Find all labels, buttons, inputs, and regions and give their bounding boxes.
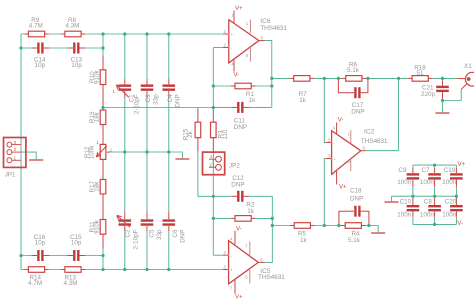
svg-text:1k: 1k [249, 97, 257, 104]
svg-text:THS4631: THS4631 [258, 274, 285, 281]
svg-text:C3: C3 [145, 94, 152, 103]
svg-text:100n: 100n [397, 211, 412, 218]
svg-text:1k: 1k [247, 208, 255, 215]
svg-text:IC2: IC2 [364, 128, 375, 135]
svg-text:2k: 2k [187, 130, 194, 138]
svg-text:C6: C6 [172, 229, 179, 238]
svg-text:100k: 100k [88, 145, 95, 160]
svg-text:V-: V- [234, 73, 240, 79]
svg-text:+: + [333, 158, 336, 163]
svg-text:V+: V+ [339, 185, 347, 191]
svg-text:V+: V+ [235, 6, 243, 12]
svg-text:JP2: JP2 [229, 162, 240, 169]
svg-text:4.3M: 4.3M [65, 23, 79, 30]
svg-text:+: + [231, 33, 234, 38]
svg-text:4.7M: 4.7M [29, 23, 43, 30]
svg-text:2-10pF: 2-10pF [134, 94, 141, 114]
svg-text:THS4631: THS4631 [260, 25, 287, 32]
svg-text:18k: 18k [94, 111, 101, 122]
svg-text:100n: 100n [397, 179, 412, 186]
svg-text:V+: V+ [235, 294, 243, 300]
svg-text:C20: C20 [445, 199, 457, 206]
svg-text:10p: 10p [35, 62, 46, 69]
svg-text:DNP: DNP [231, 182, 244, 189]
svg-text:100n: 100n [420, 211, 435, 218]
svg-text:4.3M: 4.3M [64, 280, 78, 287]
svg-text:DNP: DNP [180, 230, 187, 243]
svg-text:C5: C5 [149, 229, 156, 238]
svg-text:C7: C7 [421, 167, 430, 174]
svg-text:10p: 10p [35, 240, 46, 247]
svg-text:51: 51 [417, 70, 425, 77]
svg-text:5.1k: 5.1k [348, 237, 361, 244]
svg-text:X1: X1 [464, 63, 472, 70]
svg-text:33p: 33p [156, 229, 163, 240]
svg-text:10p: 10p [71, 62, 82, 69]
svg-text:18k: 18k [94, 181, 101, 192]
svg-text:IC6: IC6 [260, 18, 271, 25]
svg-text:C8: C8 [424, 199, 433, 206]
svg-text:1k: 1k [300, 237, 308, 244]
svg-text:V-: V- [457, 221, 463, 227]
svg-text:DNP: DNP [351, 108, 364, 115]
svg-text:C4: C4 [167, 94, 174, 103]
svg-text:33p: 33p [153, 94, 160, 105]
svg-text:V-: V- [338, 118, 344, 124]
svg-text:V+: V+ [458, 162, 466, 168]
svg-text:V-: V- [236, 227, 242, 233]
svg-text:DNP: DNP [174, 94, 181, 107]
svg-text:C19: C19 [444, 167, 456, 174]
svg-text:5.1k: 5.1k [347, 67, 360, 74]
svg-text:110: 110 [222, 129, 229, 140]
svg-text:C2: C2 [125, 229, 132, 238]
svg-text:DNP: DNP [234, 124, 247, 131]
svg-text:4.7M: 4.7M [28, 280, 42, 287]
svg-text:THS4631: THS4631 [361, 138, 388, 145]
svg-text:100n: 100n [442, 179, 457, 186]
svg-text:C18: C18 [350, 187, 362, 194]
svg-text:+: + [230, 269, 233, 274]
svg-text:910k: 910k [94, 70, 101, 85]
svg-text:100n: 100n [442, 211, 457, 218]
svg-text:100n: 100n [420, 179, 435, 186]
svg-text:C10: C10 [400, 199, 412, 206]
svg-text:1k: 1k [299, 97, 307, 104]
svg-text:2-10pF: 2-10pF [132, 229, 139, 249]
svg-text:220p: 220p [421, 91, 436, 98]
svg-text:10p: 10p [71, 240, 82, 247]
svg-text:910k: 910k [94, 219, 101, 234]
svg-text:DNP: DNP [350, 195, 363, 202]
svg-text:JP1: JP1 [5, 172, 16, 179]
svg-text:C9: C9 [398, 167, 407, 174]
